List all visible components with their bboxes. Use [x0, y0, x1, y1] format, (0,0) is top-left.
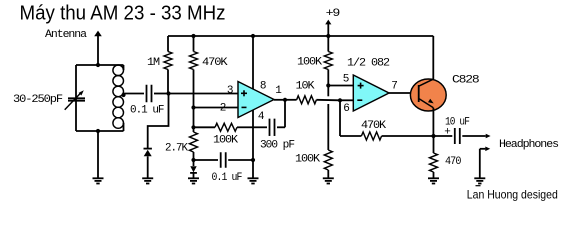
capacitor 300pF [270, 119, 275, 136]
pin8 wire [252, 36, 254, 89]
label 470K feedback [361, 120, 386, 132]
headphones arrow 2 [480, 147, 490, 152]
op-amp U1a 1/2 082 [238, 82, 274, 118]
variable capacitor 30-250pF [65, 65, 85, 131]
wire pin6 to 470K [339, 100, 341, 136]
pin5 label [343, 73, 349, 85]
+9 arrow [325, 20, 331, 36]
ground D1 [142, 178, 153, 183]
pin6 label [343, 103, 349, 115]
svg-text:0.1 uF: 0.1 uF [130, 105, 164, 117]
diode D1 [144, 149, 152, 179]
node pin4 ground [251, 158, 255, 162]
node tank ground [96, 129, 100, 133]
svg-text:Headphones: Headphones [499, 139, 558, 151]
wire pin2 [194, 107, 239, 109]
antenna arrow/mast [94, 31, 102, 65]
wire tap to C1 [124, 94, 145, 96]
capacitor 10uF [434, 128, 486, 144]
ground emitter [428, 178, 439, 183]
label 100K divider top [297, 57, 322, 69]
node 2.7K bottom [191, 158, 195, 162]
ground tank [93, 178, 104, 183]
pin4 label [258, 111, 265, 123]
wire emitter [432, 108, 434, 136]
label 0.1uF bottom [212, 172, 242, 184]
pin2 label [220, 103, 226, 115]
pin3 label [227, 85, 233, 97]
wire divider mid [327, 86, 329, 151]
label 10K [296, 81, 315, 93]
svg-text:7: 7 [391, 81, 397, 93]
pin4 wire [252, 110, 254, 160]
label C828 [452, 75, 479, 87]
ground pin4 [248, 178, 259, 183]
wire node A to D1 [148, 94, 169, 149]
label 1M [147, 57, 159, 69]
wire collector [432, 36, 434, 79]
svg-text:0.1 uF: 0.1 uF [212, 172, 242, 184]
wire C1 to node A [154, 93, 169, 95]
wire pin6 [340, 99, 353, 101]
node pin2 [191, 105, 195, 109]
node 100K left [191, 125, 195, 129]
op-amp U1b 1/2 082 [353, 75, 389, 111]
wire pin7 to base [389, 92, 419, 94]
pin7 label [391, 81, 397, 93]
wire +9 rail [168, 35, 433, 37]
node pin5 [326, 83, 330, 87]
wire tank to ground [97, 131, 99, 178]
ground divider [323, 178, 334, 183]
pin1 label [275, 85, 282, 97]
svg-text:2: 2 [220, 103, 226, 115]
label 2.7K [165, 143, 188, 155]
label Headphones [499, 139, 558, 151]
label 30-250pF [13, 94, 62, 106]
wire pin4 gnd stem [252, 160, 254, 178]
capacitor 0.1uF input [147, 85, 152, 103]
svg-text:300 pF: 300 pF [260, 140, 294, 152]
resistor 470K bias [190, 36, 198, 108]
title text [20, 3, 226, 25]
node rail supply [326, 34, 330, 38]
svg-text:+: + [444, 126, 450, 138]
svg-text:2.7K: 2.7K [165, 143, 188, 155]
svg-text:1M: 1M [147, 57, 159, 69]
wire tank top [76, 64, 124, 66]
svg-text:30-250pF: 30-250pF [13, 94, 62, 106]
svg-text:1/2 082: 1/2 082 [347, 58, 389, 70]
wire C3 to gnd node [228, 159, 253, 161]
svg-text:Máy thu AM 23 - 33 MHz: Máy thu AM 23 - 33 MHz [20, 3, 226, 25]
wire D2 to C3 [194, 159, 219, 161]
label +9 [326, 8, 340, 20]
node antenna-tank [96, 63, 100, 67]
svg-text:+9: +9 [326, 8, 340, 20]
headphones arrow 1 [486, 134, 491, 139]
wire hp return [479, 149, 481, 179]
node rail R2 [191, 34, 195, 38]
label 100K divider bottom [295, 153, 320, 165]
wire 300pF to output [277, 100, 285, 127]
wire tank bottom [76, 130, 124, 132]
resistor 100K fb1 [194, 123, 254, 131]
diode D2 [190, 160, 197, 178]
node rail pin8 [251, 34, 255, 38]
inductor coil [113, 65, 124, 131]
svg-text:10K: 10K [296, 81, 315, 93]
label 1/2 082 [347, 58, 389, 70]
ground D2 [188, 178, 199, 183]
svg-text:C828: C828 [452, 75, 479, 87]
svg-text:100K: 100K [213, 135, 238, 147]
svg-text:470K: 470K [202, 57, 228, 69]
label 100K fb1 [213, 135, 238, 147]
svg-text:470: 470 [445, 156, 461, 168]
wire node A to pin3 [169, 93, 239, 95]
antenna label [45, 29, 87, 41]
svg-text:8: 8 [260, 80, 266, 92]
label 470 [445, 156, 461, 168]
svg-text:Lan Huong desiged: Lan Huong desiged [467, 188, 558, 202]
resistor 100K divider top [324, 36, 332, 86]
resistor 470K feedback [340, 132, 434, 140]
resistor 100K divider bottom [324, 150, 332, 178]
wire pin2 down [193, 108, 195, 128]
svg-text:3: 3 [227, 85, 233, 97]
svg-text:5: 5 [343, 73, 349, 85]
node A input bias [166, 91, 170, 95]
label 470K bias [202, 57, 228, 69]
svg-text:470K: 470K [361, 120, 386, 132]
svg-text:Antenna: Antenna [45, 29, 87, 41]
transistor C828 [410, 79, 446, 111]
signature text [467, 186, 558, 202]
pin8 label [260, 80, 266, 92]
node pin1 out [283, 98, 287, 102]
label 0.1uF input [130, 105, 164, 117]
wire pin1 out [274, 99, 285, 101]
label 300pF [260, 140, 294, 152]
node emitter [431, 134, 435, 138]
wire 100K to 300pF [253, 126, 267, 128]
svg-text:6: 6 [343, 103, 349, 115]
node pin6 [338, 98, 342, 102]
label 10uF plus [444, 126, 450, 138]
svg-text:100K: 100K [295, 153, 320, 165]
svg-text:100K: 100K [297, 57, 322, 69]
ground headphones [474, 178, 485, 183]
resistor 1M [164, 36, 172, 94]
node coil tap [121, 93, 125, 97]
capacitor 0.1uF bottom [221, 152, 226, 168]
label 10uF [445, 117, 469, 129]
resistor 10K [285, 96, 340, 104]
resistor 470 [430, 136, 438, 178]
wire pin5 [328, 85, 353, 87]
resistor 2.7K [190, 127, 198, 160]
